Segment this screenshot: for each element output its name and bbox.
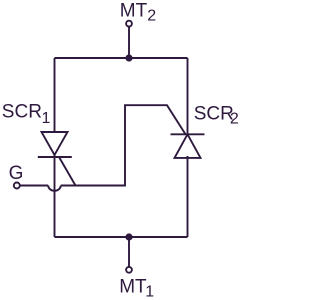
svg-text:1: 1 xyxy=(145,283,154,300)
svg-text:1: 1 xyxy=(42,110,51,127)
svg-text:SCR: SCR xyxy=(194,103,234,124)
svg-text:MT: MT xyxy=(119,276,147,297)
svg-text:SCR: SCR xyxy=(2,102,42,123)
svg-text:2: 2 xyxy=(147,7,156,24)
svg-text:G: G xyxy=(9,163,24,184)
svg-text:2: 2 xyxy=(230,111,239,128)
svg-text:MT: MT xyxy=(120,0,148,21)
